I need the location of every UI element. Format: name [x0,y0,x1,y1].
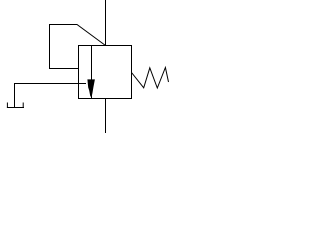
valve body V1 (square envelope) [79,46,132,99]
drain line vertical drop [14,84,16,108]
flow path arrow stem [91,46,93,99]
drain line horizontal [14,83,86,85]
spring S1 [132,68,169,89]
flow path arrowhead [87,79,95,97]
wire: inlet line top [105,0,107,46]
pilot line loop (chamfered) from inlet to body left [50,25,106,69]
tank T1 [7,103,24,108]
wire: outlet line bottom [105,99,107,134]
